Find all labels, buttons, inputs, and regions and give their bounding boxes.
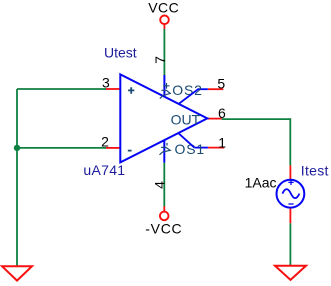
node junction dot [14, 145, 20, 151]
Itest bottom pin stub [289, 208, 291, 224]
wire: left vertical bus [16, 89, 18, 266]
pin 1 stub [208, 147, 224, 149]
svg-text:OUT: OUT [171, 111, 201, 127]
wire: pin2 to left bus [17, 147, 106, 149]
op-amp pin4 internal line [163, 140, 165, 163]
pin 3 stub [106, 88, 120, 90]
OS2 zigzag arrow [160, 90, 170, 98]
svg-text:1Aac: 1Aac [245, 175, 277, 191]
ground left [2, 266, 32, 280]
svg-text:1: 1 [218, 134, 226, 150]
OS1 zigzag arrow [160, 147, 171, 154]
current source sine [282, 189, 299, 198]
wire: output horizontal [222, 118, 291, 120]
VCC pin stub [163, 24, 165, 29]
Itest top pin stub [289, 165, 291, 179]
wire: output vertical to Itest [289, 118, 291, 165]
wire: pin4 to -VCC [163, 163, 165, 207]
svg-text:6: 6 [218, 105, 226, 121]
svg-text:3: 3 [102, 75, 110, 91]
pin7 plus marker [163, 83, 169, 89]
-VCC pin stub [163, 206, 165, 211]
op-amp pin7 internal line [163, 75, 165, 97]
OS2 branch line [179, 89, 198, 104]
svg-text:VCC: VCC [148, 0, 179, 15]
pin 6 stub [208, 118, 222, 120]
op-amp input plus marker [128, 87, 134, 94]
wire: pin3 to left bus [17, 88, 106, 90]
pin 5 stub [208, 88, 224, 90]
current source plus [288, 180, 293, 185]
current source I1 circle [277, 180, 305, 208]
svg-text:7: 7 [152, 56, 168, 64]
ground right [275, 266, 306, 280]
svg-text:Itest: Itest [301, 162, 329, 178]
-VCC bubble [160, 212, 169, 221]
wire: Itest to ground [289, 223, 291, 265]
svg-text:uA741: uA741 [83, 162, 125, 178]
wire: VCC to pin7 [163, 29, 165, 75]
OS1 branch line [178, 133, 194, 148]
svg-text:4: 4 [152, 181, 168, 189]
op-amp U1 triangle [120, 74, 207, 162]
current source minus [288, 203, 293, 205]
svg-text:5: 5 [217, 76, 225, 92]
OS2 horizontal line [198, 88, 208, 90]
VCC bubble [160, 15, 169, 24]
OS1 horizontal line [194, 147, 208, 149]
svg-text:Utest: Utest [104, 45, 137, 61]
op-amp input minus marker [128, 150, 132, 152]
pin4 minus marker [166, 143, 168, 146]
svg-text:-VCC: -VCC [145, 221, 182, 237]
pin 2 stub [106, 147, 120, 149]
svg-text:2: 2 [101, 134, 109, 150]
